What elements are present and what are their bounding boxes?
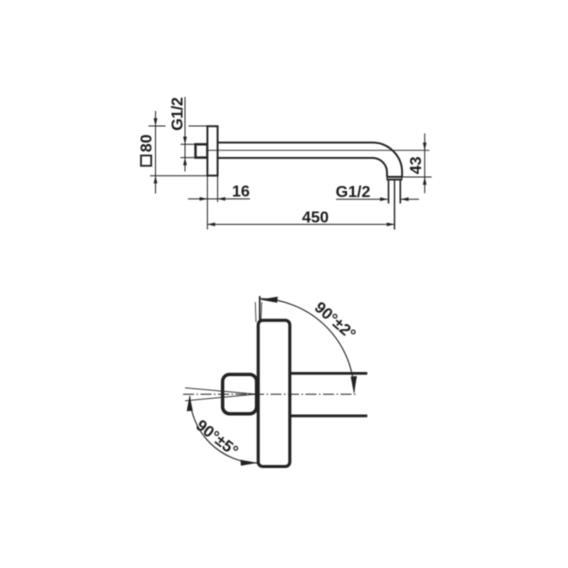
arm tube top line	[290, 372, 368, 375]
arc 90+-5	[190, 396, 257, 463]
svg-text:16: 16	[232, 183, 250, 200]
dimension 80: bottom extension line	[150, 175, 208, 177]
flange right edge extension line	[217, 176, 219, 202]
outlet nut band highlight slit	[388, 177, 402, 179]
fitting block (rounded)	[223, 374, 257, 413]
arc 90+-5 left arrow	[187, 395, 193, 411]
outlet nut band	[386, 176, 402, 181]
tolerance fan 2deg left tilted line	[254, 302, 257, 322]
wall flange plate (side view)	[207, 126, 217, 175]
svg-text:G1/2: G1/2	[336, 184, 371, 201]
dimension G1/2 right: right arrow	[401, 197, 409, 201]
arc 90+-2	[260, 299, 355, 392]
dimension 43: bottom arrow	[423, 177, 427, 185]
arc 90+-2 right arrow	[351, 376, 357, 394]
dimension 43: dim line	[424, 133, 426, 193]
dimension 16: left arrow	[200, 197, 208, 201]
dimension 16: right arrow	[218, 197, 226, 201]
dimension G1/2 top: lower arrow	[183, 158, 187, 166]
dimension G1/2 top: lower extension line	[181, 157, 196, 159]
arm tube top line with bend	[218, 143, 403, 177]
dimension 80: bottom arrow	[154, 176, 158, 184]
svg-text:450: 450	[302, 209, 329, 226]
square symbol for 80	[141, 156, 151, 166]
outlet thread left line	[388, 180, 390, 203]
dimension 80: top extension line segment a	[149, 125, 166, 127]
tolerance fan 5deg lower line	[185, 394, 256, 401]
outlet center extension line	[394, 180, 396, 229]
dimension G1/2 top: dim line	[184, 97, 186, 172]
dimension 43: bottom extension line	[402, 176, 432, 178]
svg-text:80: 80	[139, 134, 156, 152]
arm tube bottom line	[290, 414, 368, 417]
dimension 450: left arrow	[207, 223, 215, 227]
arc 90+-2 top arrow	[260, 297, 278, 303]
tube centerline	[206, 149, 430, 151]
flange plate (rounded)	[258, 320, 290, 466]
dimension 80: dim line	[155, 111, 157, 194]
dimension 80: top arrow	[154, 118, 158, 126]
dimension G1/2 top: upper arrow	[183, 137, 187, 145]
arm tube bottom line with bend	[218, 158, 387, 177]
svg-text:90°±5°: 90°±5°	[192, 417, 241, 460]
dimension 450: right arrow	[387, 223, 395, 227]
dimension G1/2 right: right line	[401, 198, 419, 200]
dash-dot centerline	[183, 393, 356, 395]
svg-text:G1/2: G1/2	[170, 97, 187, 131]
vertical extension line above flange	[259, 296, 261, 322]
dimension 43: top arrow	[423, 143, 427, 151]
tolerance fan 2deg right tilted line	[260, 302, 263, 322]
tolerance fan 5deg upper line	[185, 388, 256, 394]
dimension 16: dim line	[188, 198, 250, 200]
dimension G1/2 top: upper extension line	[181, 143, 196, 145]
arc 90+-5 bottom arrow	[240, 460, 257, 466]
dimension G1/2 right: left line under text	[336, 198, 388, 200]
fitting square (wall inlet G1/2)	[196, 144, 208, 157]
svg-text:43: 43	[408, 156, 425, 174]
dimension G1/2 right: left arrow	[380, 197, 388, 201]
flange left edge extension line	[206, 176, 208, 230]
dimension 450: dim line	[207, 223, 394, 225]
dimension 80: top extension line segment b	[189, 125, 208, 127]
outlet thread right line	[399, 180, 401, 203]
